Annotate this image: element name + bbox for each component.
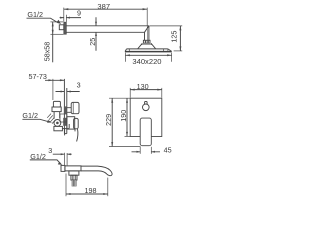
shower head right edge [168, 49, 172, 52]
down pipe inner line [146, 26, 148, 40]
spout nose top curve [81, 166, 112, 176]
lever inner edge [74, 128, 76, 131]
extension line valve back [52, 79, 54, 100]
dimension 387 right arrow [143, 8, 148, 10]
dimension 229 bottom arrow [111, 142, 113, 147]
lever front view [140, 118, 151, 146]
down pipe [145, 26, 149, 41]
trim plate bottom cap [64, 133, 66, 135]
nut slot right [147, 41, 149, 43]
leader line G1/2 mixer [22, 119, 49, 122]
shower head corner ticks [129, 49, 168, 51]
dimension 340x220 right arrow [167, 54, 172, 56]
dimension 57-73 line [45, 79, 64, 81]
dimension 57-73 left arrow [48, 79, 53, 81]
spout collar [71, 175, 77, 180]
leader arrowhead [57, 20, 62, 25]
dimension 9 left arrow [60, 17, 64, 19]
diverter knob front: circle [143, 104, 150, 111]
leader line G1/2 [27, 18, 59, 23]
dimension 57-73 right arrow [60, 79, 65, 81]
dimension 198 right arrow [103, 193, 108, 195]
dimension 25 lower arrow [95, 32, 97, 36]
dimension 3 right arrow (spout) [67, 153, 71, 155]
extension line head bottom level [174, 50, 183, 52]
wall section dark strip lower [63, 118, 67, 126]
dimension 3 left arrow [61, 91, 65, 93]
handle hub outer [74, 118, 79, 128]
svg-text:3: 3 [48, 146, 52, 155]
svg-text:3: 3 [77, 80, 81, 89]
svg-text:9: 9 [77, 9, 81, 18]
extension line flange top [50, 21, 63, 23]
dimension 190 top arrow [126, 98, 128, 103]
in-wall valve upper box [53, 101, 60, 107]
in-wall valve main box [52, 107, 61, 112]
dimension 229 top arrow [111, 98, 113, 103]
extension line left (wall face) [63, 8, 65, 22]
extension line plate top left [109, 97, 130, 99]
wall face line [63, 79, 65, 134]
svg-text:340x220: 340x220 [132, 57, 161, 66]
threaded tail (dark) [72, 180, 77, 186]
wall plate front view [130, 98, 162, 136]
wall section dark strip upper [64, 106, 67, 113]
extension line wall bottom [65, 174, 67, 197]
dimension 58x58 top arrow [52, 22, 54, 27]
dimension 45 right arrow [151, 151, 155, 153]
dimension 45 left arrow [137, 151, 141, 153]
diverter knob front: stub [145, 102, 148, 105]
extension line lever bottom [109, 146, 141, 148]
leader arrowhead mixer [47, 120, 52, 123]
extension line wall (spout) [64, 153, 66, 165]
inlet lower box [54, 126, 63, 130]
dimension 58x58 bottom arrow [52, 30, 54, 35]
dimension 3 left arrow (spout) [61, 153, 65, 155]
dimension 9 right arrow [66, 17, 70, 19]
svg-text:229: 229 [104, 114, 113, 126]
lever base drop [64, 128, 66, 135]
inlet connection circle [54, 120, 61, 127]
dimension 229 line [111, 98, 113, 146]
leader arrowhead spout [58, 162, 63, 165]
wall nub (G1/2 thread) [59, 25, 64, 30]
extension line flange front (spout) [66, 153, 68, 165]
connector nut [143, 40, 150, 43]
dimension 130 left arrow [130, 89, 135, 91]
dimension 58x58 line [52, 22, 54, 62]
shower arm pipe [66, 26, 149, 33]
extension line lever left [139, 147, 141, 154]
wall hatching [47, 114, 55, 124]
extension line flange bottom [50, 33, 63, 35]
dimension 3 line tails (mixer) [56, 91, 80, 93]
svg-text:45: 45 [164, 145, 172, 154]
dimension 190 line [126, 98, 128, 136]
threaded tail ribs [73, 180, 76, 186]
svg-text:198: 198 [85, 186, 97, 195]
dimension 387 line [64, 8, 147, 10]
inlet centre dot [56, 122, 59, 125]
hub front edge line [68, 124, 70, 128]
valve body mid box [60, 114, 67, 122]
cone joint shoulder lines [141, 44, 152, 46]
leader line G1/2 spout [30, 160, 61, 164]
shower head bottom face (thick) [125, 51, 172, 53]
extension line arm top level [150, 25, 183, 27]
supply pipe lines [54, 112, 60, 119]
trim plate front line [66, 88, 68, 134]
extension line flange front [65, 15, 67, 22]
extension line head left [124, 53, 126, 62]
extension line right (pipe centre) [146, 8, 148, 26]
dimension 340x220 left arrow [125, 54, 129, 56]
shower head left edge [125, 49, 127, 52]
dimension 125 top arrow [179, 26, 181, 31]
dimension 25 lower tail [95, 32, 97, 51]
diverter knob inner line [72, 103, 74, 114]
extension line plate bottom [125, 135, 131, 137]
dimension 130 line [130, 89, 162, 91]
extension line plate left top [129, 88, 131, 98]
dimension 130 right arrow [157, 89, 162, 91]
extension line lever right [150, 147, 152, 154]
dimension 340x220 line [125, 54, 171, 56]
spout flange [61, 165, 65, 171]
svg-text:57-73: 57-73 [29, 72, 47, 81]
flange plate (side view, filled) [64, 22, 67, 34]
diverter stem [67, 108, 71, 113]
svg-text:58x58: 58x58 [43, 42, 52, 62]
collar ribs [72, 175, 75, 179]
dimension 125 bottom arrow [179, 46, 181, 51]
extension line head right [171, 53, 173, 62]
dimension 3 right arrow [67, 91, 71, 93]
shower head top edge [127, 48, 168, 50]
elbow miter joint [145, 26, 149, 33]
dimension 198 line [66, 193, 108, 195]
dimension 125 line [179, 26, 181, 51]
cone joint legs [138, 43, 156, 49]
dimension 3 line tails (spout) [53, 153, 72, 155]
dimension 9 line tails [60, 17, 81, 19]
dimension 25 upper arrow [95, 22, 97, 26]
extension line spout tip [107, 178, 109, 197]
spout underbody step [69, 171, 79, 175]
lever base line [62, 128, 69, 130]
dimension 25 upper tail [95, 17, 97, 25]
dimension 198 left arrow [66, 193, 71, 195]
svg-text:G1/2: G1/2 [22, 111, 38, 120]
dimension 387 left arrow [64, 8, 69, 10]
handle hub inner [67, 117, 75, 129]
dimension 190 bottom arrow [126, 132, 128, 137]
spout nose underside [81, 171, 107, 174]
svg-text:125: 125 [169, 31, 178, 43]
diverter knob [71, 102, 79, 113]
dimension 45 line tails [132, 151, 161, 153]
extension line plate right top [161, 88, 163, 98]
spout body [65, 166, 81, 171]
nut slot left [145, 41, 147, 43]
lever arm down [77, 129, 78, 142]
